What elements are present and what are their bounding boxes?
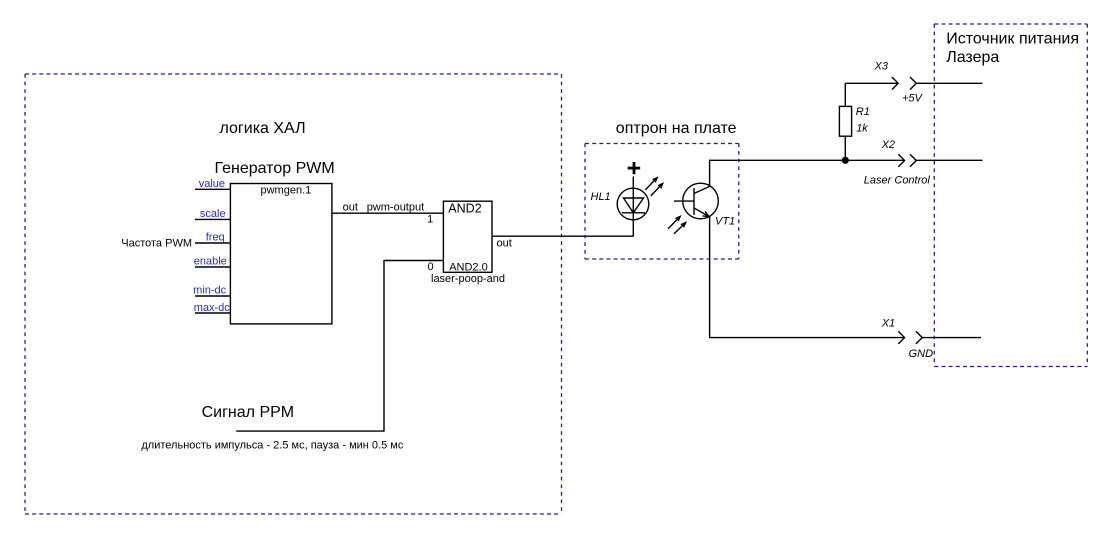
LED HL1: anode/cathode vertical wire <box>632 177 634 237</box>
svg-text:freq: freq <box>206 232 225 244</box>
svg-text:max-dc: max-dc <box>194 302 231 314</box>
junction dot <box>842 157 849 164</box>
svg-text:Лазера: Лазера <box>946 49 999 66</box>
connector X3 <box>845 77 982 90</box>
svg-text:длительность импульса - 2.5 мс: длительность импульса - 2.5 мс, пауза - … <box>141 439 403 451</box>
gate AND2 body <box>443 201 492 272</box>
LED HL1: cathode bar <box>622 212 645 214</box>
svg-text:pwmgen.1: pwmgen.1 <box>261 184 312 196</box>
svg-text:R1: R1 <box>856 106 870 118</box>
svg-text:min-dc: min-dc <box>193 285 227 297</box>
wire collector up and right to X2 <box>709 160 905 187</box>
pin max-dc (wire + label) <box>194 302 231 314</box>
dashed box: логика ХАЛ <box>25 74 562 514</box>
svg-text:+5V: +5V <box>902 93 924 105</box>
svg-text:AND2.0: AND2.0 <box>449 261 488 273</box>
wire emitter down and right to X1 <box>709 216 905 337</box>
phototransistor VT1: circle <box>683 183 719 219</box>
svg-text:scale: scale <box>200 208 226 220</box>
pin freq (wire + label) <box>195 232 230 244</box>
LED HL1: emission arrow 1 <box>645 178 657 190</box>
svg-text:AND2: AND2 <box>448 202 481 216</box>
title: Источник питания Лазера <box>946 30 1079 66</box>
svg-text:X1: X1 <box>881 318 895 330</box>
svg-text:1k: 1k <box>856 122 868 134</box>
wire AND2 out to LED <box>492 236 634 249</box>
svg-text:HL1: HL1 <box>591 191 611 203</box>
svg-text:out: out <box>497 237 512 249</box>
pin value (wire + label) <box>195 178 230 190</box>
svg-text:логика ХАЛ: логика ХАЛ <box>220 120 306 137</box>
LED HL1: emission arrow 2 <box>651 184 663 196</box>
svg-text:Laser Control: Laser Control <box>864 175 931 187</box>
pin scale (wire + label) <box>195 208 230 220</box>
svg-text:laser-poop-and: laser-poop-and <box>431 273 505 285</box>
svg-text:out: out <box>343 202 358 214</box>
phototransistor VT1: received light arrow 1 <box>668 216 680 228</box>
phototransistor VT1: received light arrow 2 <box>674 223 686 234</box>
component pwmgen.1 body <box>230 184 332 324</box>
svg-text:оптрон на плате: оптрон на плате <box>616 120 737 137</box>
connector X2 <box>898 154 982 167</box>
pin enable (wire + label) <box>194 256 231 268</box>
wire PPM signal underline <box>236 430 384 432</box>
phototransistor VT1: collector diagonal <box>694 186 710 193</box>
wire PPM vertical to AND2 pin 0 <box>384 260 443 431</box>
svg-text:value: value <box>199 178 225 190</box>
svg-text:Частота PWM: Частота PWM <box>121 237 192 249</box>
resistor R1 body <box>839 106 851 136</box>
LED HL1: plus polarity mark <box>628 162 641 174</box>
svg-text:X3: X3 <box>874 61 889 73</box>
dashed box: оптрон на плате <box>585 144 739 260</box>
svg-text:GND: GND <box>909 348 934 360</box>
svg-text:VT1: VT1 <box>715 216 735 228</box>
pin min-dc (wire + label) <box>193 285 230 297</box>
svg-text:X2: X2 <box>881 139 895 151</box>
phototransistor VT1: base stub <box>674 200 694 202</box>
phototransistor VT1: base bar <box>693 188 695 215</box>
wire R1 top <box>844 83 846 106</box>
svg-text:1: 1 <box>427 213 433 225</box>
svg-text:pwm-output: pwm-output <box>367 202 424 214</box>
wire R1 bottom <box>844 136 846 160</box>
LED HL1: triangle <box>624 198 644 213</box>
connector X1 <box>898 331 981 344</box>
svg-text:enable: enable <box>194 256 227 268</box>
wire pwm out to AND2 pin 1 <box>332 212 444 214</box>
svg-text:Генератор PWM: Генератор PWM <box>215 160 335 177</box>
svg-text:Источник питания: Источник питания <box>946 30 1079 47</box>
phototransistor VT1: emitter diagonal with arrow <box>694 208 709 217</box>
dashed box: Источник питания Лазера <box>934 24 1087 367</box>
svg-text:Сигнал PPM: Сигнал PPM <box>202 404 295 421</box>
svg-text:0: 0 <box>427 261 433 273</box>
LED HL1: circle <box>617 188 649 220</box>
